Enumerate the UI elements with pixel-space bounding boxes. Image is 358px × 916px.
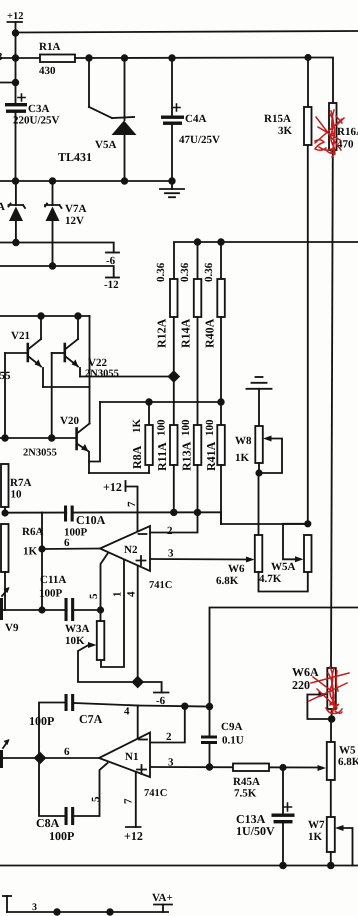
- svg-text:TL431: TL431: [58, 150, 92, 164]
- node x184 y706: [181, 703, 188, 710]
- node +12 junction: [12, 29, 19, 36]
- svg-text:3: 3: [168, 757, 174, 769]
- node pin6 N1: [34, 752, 47, 765]
- wire emitter bus y473: [89, 472, 149, 474]
- svg-text:R13A: R13A: [180, 441, 194, 471]
- op-amp N1: [99, 733, 150, 778]
- terminal V9 input: [0, 587, 10, 620]
- svg-text:7.5K: 7.5K: [234, 788, 257, 800]
- wire R12A down: [173, 317, 175, 425]
- wire W8 to W6: [258, 473, 260, 535]
- resistor R12A: [170, 279, 178, 317]
- svg-text:6: 6: [64, 537, 70, 549]
- capacitor C4A: [161, 58, 184, 181]
- svg-text:R11A: R11A: [155, 442, 169, 471]
- wire W7 bottom: [330, 852, 332, 866]
- node C3A top: [12, 79, 19, 86]
- svg-text:3K: 3K: [278, 125, 293, 137]
- wire C9A column: [209, 707, 211, 737]
- wire R13A bottom: [197, 465, 199, 513]
- terminal -6: [106, 252, 119, 254]
- terminal VA+: [154, 905, 172, 913]
- svg-text:W6: W6: [228, 563, 245, 575]
- svg-text:W5A: W5A: [271, 561, 296, 573]
- svg-text:1: 1: [112, 592, 124, 598]
- svg-text:C9A: C9A: [221, 721, 242, 733]
- svg-text:V21: V21: [11, 330, 30, 342]
- node R15A tee: [304, 54, 311, 61]
- node V22 collector: [74, 312, 81, 319]
- wire ground bus y181: [0, 180, 172, 182]
- node x209 y706: [206, 703, 213, 710]
- svg-text:6: 6: [64, 746, 70, 758]
- wire V20 collector riser: [89, 316, 91, 424]
- wire -12 line: [0, 266, 114, 278]
- capacitor C3A: [5, 83, 27, 182]
- node R1A out: [85, 54, 92, 61]
- resistor R45A: [233, 764, 269, 772]
- wire pin3 N1 line: [150, 766, 322, 769]
- svg-text:741C: 741C: [149, 580, 172, 591]
- terminal N1 input: [0, 739, 10, 768]
- wire V20 base line: [0, 437, 77, 439]
- wire R41A to W5A top: [221, 512, 308, 524]
- wire V22 emitter line y376: [80, 376, 174, 378]
- svg-text:V7A: V7A: [65, 203, 86, 215]
- wire R40A down: [220, 317, 222, 402]
- node R40A R41A: [217, 398, 224, 405]
- node R40A top: [217, 238, 224, 245]
- terminal +12 N2 tick: [125, 481, 127, 491]
- transistor V21: [5, 316, 43, 387]
- resistor R14A: [194, 279, 202, 317]
- diode zener V6A (left, partial label): [9, 181, 26, 243]
- node bottom a: [53, 908, 60, 915]
- wire rail R16A down: [331, 150, 333, 668]
- wire y706 line: [138, 706, 210, 707]
- svg-text:7: 7: [123, 798, 135, 804]
- svg-text:3: 3: [32, 902, 37, 913]
- node V7A top: [49, 177, 56, 184]
- wire y402 line: [100, 401, 221, 403]
- node V5A top: [121, 54, 128, 61]
- wire C8A column: [39, 758, 64, 816]
- svg-text:C7A: C7A: [79, 712, 103, 726]
- svg-text:+12: +12: [124, 829, 143, 843]
- svg-text:R16A: R16A: [337, 126, 358, 138]
- svg-text:R8A: R8A: [130, 445, 144, 469]
- diode zener V7A: [45, 181, 62, 266]
- ground: [160, 181, 184, 197]
- node R14A top: [194, 238, 201, 245]
- capacitor C7A: [39, 694, 138, 758]
- node base V22 column: [48, 434, 55, 441]
- wire R15A drop: [307, 58, 309, 108]
- svg-text:R45A: R45A: [233, 776, 260, 788]
- terminal +12 N1: [126, 826, 141, 828]
- wire node 3 line left: [0, 57, 40, 59]
- wire V21 base column: [4, 353, 6, 438]
- wire pin5 N2: [101, 553, 109, 610]
- svg-text:1K: 1K: [308, 831, 323, 843]
- node C3A bottom: [12, 177, 19, 184]
- node bottom b: [106, 908, 113, 915]
- node V21 collector: [37, 312, 44, 319]
- svg-text:N1: N1: [125, 751, 138, 763]
- node R8A top: [145, 398, 152, 405]
- svg-text:10: 10: [11, 489, 23, 501]
- resistor R1A: [40, 55, 75, 63]
- node C9A R45A: [206, 763, 213, 770]
- svg-text:A: A: [0, 201, 5, 213]
- svg-text:430: 430: [39, 65, 56, 77]
- svg-text:2: 2: [166, 731, 172, 743]
- capacitor C13A: [272, 768, 295, 866]
- node R7A R6A: [1, 509, 8, 516]
- svg-text:100: 100: [204, 419, 216, 436]
- terminal bottom left: [3, 896, 11, 912]
- wire R40A top stub: [220, 242, 222, 279]
- op-amp N2: [100, 526, 150, 571]
- node V7A bottom: [49, 262, 56, 269]
- svg-text:100: 100: [180, 419, 192, 436]
- resistor R13A: [194, 425, 202, 465]
- resistor R15A: [304, 107, 312, 145]
- svg-text:0.36: 0.36: [203, 262, 215, 282]
- svg-text:R1A: R1A: [39, 41, 60, 53]
- svg-text:W3A: W3A: [65, 623, 90, 635]
- resistor R7A: [1, 464, 9, 507]
- wire bottom bus: [0, 865, 358, 867]
- svg-text:12V: 12V: [65, 215, 84, 227]
- svg-text:7: 7: [126, 501, 138, 507]
- wire R6A bottom: [4, 572, 6, 610]
- wire R8A top stub: [148, 402, 150, 425]
- wire -6 stub N2: [138, 682, 162, 693]
- svg-text:C11A: C11A: [40, 574, 66, 586]
- node diamond R12A: [167, 370, 180, 383]
- svg-text:R41A: R41A: [204, 441, 218, 471]
- svg-text:V20: V20: [60, 415, 79, 427]
- node W7 bottom: [327, 862, 335, 870]
- svg-text:0.36: 0.36: [179, 262, 191, 282]
- svg-text:+12: +12: [7, 11, 23, 22]
- svg-text:R15A: R15A: [264, 113, 291, 125]
- wiper arrow W5: [318, 765, 327, 771]
- svg-text:V22: V22: [88, 357, 107, 369]
- svg-text:R7A: R7A: [10, 477, 31, 489]
- red scribble over R16A: [315, 110, 344, 157]
- svg-text:3: 3: [0, 51, 3, 63]
- terminal -6 N2: [154, 692, 169, 694]
- wire stub left at 82: [0, 82, 16, 84]
- node base R7A column: [1, 434, 8, 441]
- wire R14A top stub: [197, 242, 199, 279]
- wire pin6 N2: [42, 548, 100, 551]
- svg-text:4: 4: [124, 706, 130, 718]
- wire rail R15A down: [307, 145, 309, 524]
- svg-text:C10A: C10A: [76, 513, 106, 527]
- wire V21 emitter line y387: [43, 386, 90, 388]
- wire 0.36 top line y242: [174, 242, 358, 279]
- svg-text:5: 5: [88, 593, 100, 599]
- svg-text:W8: W8: [235, 435, 252, 447]
- svg-text:4: 4: [126, 591, 138, 597]
- wire W5 to W7: [330, 780, 332, 817]
- potentiometer W5: [327, 742, 335, 780]
- node W5A top: [304, 520, 311, 527]
- wire pin3 N2 to W6 wiper: [150, 558, 252, 561]
- wire vertical +12 to node3: [15, 33, 17, 83]
- node diamond pin4: [131, 676, 144, 689]
- svg-text:100P: 100P: [39, 588, 63, 600]
- wire R7A bottom to node: [4, 507, 6, 513]
- wire R41A bottom: [220, 465, 222, 524]
- svg-text:R14A: R14A: [179, 318, 193, 348]
- node W6A bottom: [328, 715, 336, 723]
- svg-text:5: 5: [90, 796, 102, 802]
- wire tee to R16A: [308, 58, 333, 104]
- capacitor C11A: [65, 598, 75, 621]
- svg-text:6.8K: 6.8K: [216, 575, 239, 587]
- wire R1A output line: [75, 57, 308, 60]
- potentiometer W6A: [307, 668, 335, 719]
- svg-text:1K: 1K: [23, 546, 38, 558]
- wire x100 drop: [89, 402, 100, 462]
- node V5A anode: [121, 177, 128, 184]
- node pin5 W3A: [97, 606, 104, 613]
- svg-text:0.1U: 0.1U: [222, 735, 244, 747]
- potentiometer W3A: [78, 610, 134, 682]
- node R11A bottom: [170, 509, 177, 516]
- wire pin4 N2: [137, 566, 139, 682]
- wire pin1 N2: [101, 560, 124, 667]
- svg-text:N2: N2: [124, 544, 138, 556]
- svg-text:+12: +12: [103, 480, 122, 494]
- resistor R40A: [217, 279, 225, 317]
- wire R11A bottom: [173, 465, 175, 513]
- potentiometer W8: [255, 426, 282, 473]
- svg-text:W5: W5: [339, 745, 356, 757]
- capacitor C10A: [64, 506, 74, 522]
- svg-text:100: 100: [156, 419, 168, 436]
- capacitor C9A: [201, 736, 217, 768]
- wire R41A top stub: [220, 402, 222, 425]
- capacitor C8A: [65, 763, 108, 825]
- node pin6 C11A riser: [38, 545, 45, 552]
- svg-text:1K: 1K: [131, 419, 143, 434]
- svg-text:47U/25V: 47U/25V: [179, 134, 220, 146]
- wire pin7 N1: [135, 772, 137, 827]
- svg-text:R12A: R12A: [155, 318, 169, 348]
- transistor V20: [77, 424, 90, 474]
- wire V22 base column: [51, 353, 53, 438]
- resistor R6A: [1, 524, 9, 572]
- svg-text:R40A: R40A: [203, 318, 217, 348]
- transistor V22: [52, 316, 80, 377]
- node x42 y610: [38, 606, 45, 613]
- wire R14A down: [197, 317, 199, 425]
- wire pin2 N2: [150, 512, 198, 532]
- svg-text:C8A: C8A: [36, 816, 60, 830]
- wire pin2 N1 riser: [150, 706, 185, 742]
- svg-text:C4A: C4A: [185, 113, 206, 125]
- wire frame y607: [210, 608, 358, 707]
- svg-text:220: 220: [292, 678, 310, 692]
- node R1A left: [12, 54, 19, 61]
- wire +12 rail: [16, 31, 358, 33]
- wire R8A bottom stub: [148, 465, 150, 473]
- potentiometer W5A: [283, 524, 312, 572]
- svg-text:1U/50V: 1U/50V: [236, 824, 275, 838]
- svg-text:220U/25V: 220U/25V: [13, 115, 60, 127]
- svg-text:2: 2: [167, 525, 173, 537]
- wire pin4 N1: [137, 706, 139, 741]
- node R45A C13A: [279, 764, 286, 771]
- wire W6A to W5: [330, 719, 332, 742]
- resistor R11A: [170, 425, 178, 465]
- svg-text:-12: -12: [104, 279, 119, 291]
- svg-text:W7: W7: [308, 819, 325, 831]
- svg-text:W6A: W6A: [292, 665, 319, 679]
- svg-text:3: 3: [168, 548, 174, 560]
- svg-text:100P: 100P: [29, 714, 54, 728]
- wire collector line y316: [0, 315, 90, 317]
- wire V9 line y610: [2, 609, 101, 611]
- node C4A top: [168, 54, 175, 61]
- wire bottom strip line: [7, 911, 168, 913]
- wire riser x42: [41, 513, 43, 611]
- terminal -12: [106, 277, 119, 279]
- wire -6 line: [0, 243, 114, 253]
- transistor V5A TL431: [89, 58, 137, 181]
- node zener left bottom: [12, 239, 19, 246]
- svg-text:100P: 100P: [49, 829, 74, 843]
- svg-text:10K: 10K: [65, 635, 85, 647]
- svg-text:741C: 741C: [144, 788, 167, 799]
- resistor R16A: [329, 103, 337, 150]
- svg-text:0.36: 0.36: [155, 262, 167, 282]
- svg-text:1K: 1K: [235, 452, 250, 464]
- red scribble over W6A: [309, 667, 349, 714]
- potentiometer W7: [327, 817, 353, 866]
- svg-text:6.8K: 6.8K: [338, 756, 358, 768]
- node C13A bottom: [279, 862, 287, 870]
- wire pin7 N2: [126, 487, 138, 532]
- svg-text:C3A: C3A: [28, 103, 49, 115]
- svg-text:V9: V9: [5, 622, 19, 634]
- wire pin6 N1: [2, 757, 99, 759]
- svg-text:R6A: R6A: [22, 526, 43, 538]
- wire C10A line y512: [5, 511, 221, 513]
- node R13A bottom pin2: [194, 509, 201, 516]
- resistor R41A: [217, 425, 225, 465]
- potentiometer W6: [246, 535, 308, 592]
- svg-text:4.7K: 4.7K: [259, 573, 282, 585]
- node C4A bottom: [168, 177, 175, 184]
- node W8 bottom: [255, 469, 262, 476]
- svg-text:V5A: V5A: [95, 139, 116, 151]
- svg-text:2N3055: 2N3055: [23, 448, 57, 459]
- ground inverted above W8: [247, 377, 272, 426]
- resistor R8A: [145, 425, 153, 465]
- +12 terminal top-left: [8, 22, 23, 34]
- svg-text:VA+: VA+: [152, 892, 173, 904]
